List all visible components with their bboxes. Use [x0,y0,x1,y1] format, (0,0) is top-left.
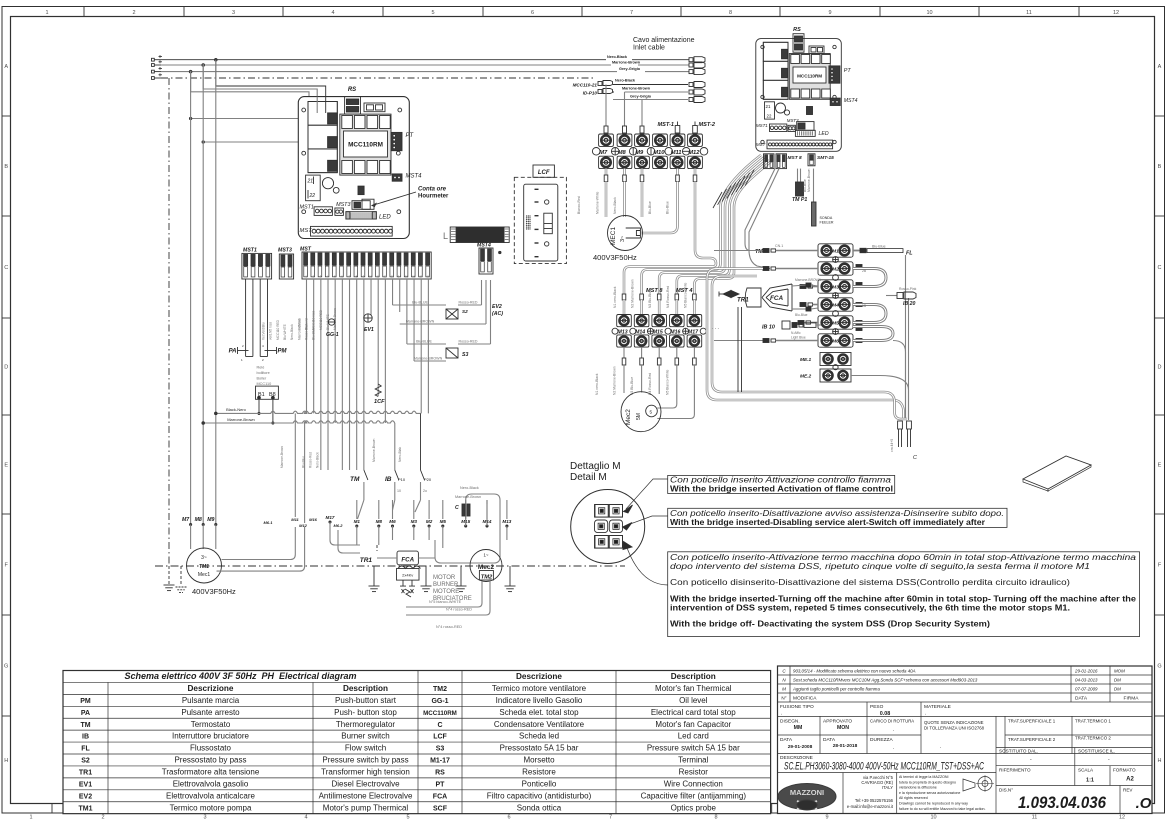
svg-text:Relè: Relè [257,366,265,370]
svg-text:TM2: TM2 [481,575,493,581]
svg-text:Blu-Blue: Blu-Blue [666,201,670,214]
svg-text:6: 6 [531,10,534,16]
svg-text:Grey-Grigio: Grey-Grigio [630,95,652,99]
svg-text:C: C [4,265,8,271]
svg-text:G: G [4,664,8,670]
svg-text:Diesel Electrovalve: Diesel Electrovalve [331,779,400,788]
svg-text:Pressostato 5A 15 bar: Pressostato 5A 15 bar [500,744,579,753]
svg-text:1: 1 [45,10,48,16]
svg-text:D: D [4,365,8,371]
svg-text:ITALY: ITALY [882,785,893,790]
svg-text:MST1: MST1 [300,205,314,211]
svg-text:E: E [4,463,8,469]
svg-text:M13: M13 [502,519,511,524]
svg-text:Mec2: Mec2 [478,564,495,571]
svg-text:Wire Connection: Wire Connection [664,779,723,788]
svg-text:Indicatore livello Gasolio: Indicatore livello Gasolio [496,696,583,705]
svg-text:Marrone-BROWN: Marrone-BROWN [406,320,435,324]
svg-text:MCC110RM: MCC110RM [348,142,383,149]
svg-text:2: 2 [101,815,104,820]
svg-text:M15: M15 [653,330,663,336]
svg-text:L: L [443,231,448,241]
svg-text:21: 21 [307,179,314,185]
svg-text:Nero-Black: Nero-Black [460,486,479,490]
svg-text:Dettaglio M: Dettaglio M [570,461,621,472]
svg-text:Nero-Black: Nero-Black [613,197,617,214]
svg-text:12: 12 [384,275,388,279]
svg-text:.O: .O [1136,795,1152,812]
svg-text:1CF: 1CF [374,399,385,405]
svg-text:SCF: SCF [433,805,448,812]
svg-text:N4 Rosso-Red: N4 Rosso-Red [648,373,652,395]
svg-text:MCC110-21: MCC110-21 [573,83,598,88]
svg-text:07-07-2009: 07-07-2009 [1075,687,1098,692]
svg-text:intervention of DSS system, re: intervention of DSS system, repeted 5 ti… [670,603,1070,612]
svg-text:22: 22 [767,114,772,119]
svg-text:Rosso-Red: Rosso-Red [309,452,313,468]
svg-text:S2: S2 [462,309,468,314]
svg-text:N5 Bianco-White: N5 Bianco-White [683,282,687,308]
svg-text:GG-1: GG-1 [431,698,448,705]
svg-text:Terminal: Terminal [678,756,708,765]
svg-text:TM1: TM1 [79,805,93,812]
svg-text:Cavo alimentazione: Cavo alimentazione [633,37,695,44]
svg-text:10: 10 [930,815,936,820]
svg-text:Detail M: Detail M [570,472,607,483]
svg-text:B: B [1158,164,1162,170]
svg-text:DI TOLLERANZA UNI ISO2768: DI TOLLERANZA UNI ISO2768 [924,726,985,731]
svg-text:APPROVATO: APPROVATO [823,719,852,725]
svg-text:Con poticello inserito Attivaz: Con poticello inserito Attivazione contr… [670,476,892,485]
svg-text:22: 22 [309,193,316,199]
svg-text:GG-1: GG-1 [326,332,339,338]
svg-text:PA: PA [81,710,90,717]
svg-text:failure to do so will entitle: failure to do so will entitle Mazzoni to… [899,807,986,811]
svg-text:M6: M6 [389,519,396,524]
svg-text:5M: 5M [636,413,642,420]
svg-text:1:1: 1:1 [1086,778,1094,784]
svg-text:M7: M7 [182,517,190,523]
svg-text:MCC110RM: MCC110RM [423,710,457,717]
svg-text:DATA: DATA [823,737,836,743]
svg-text:LED: LED [819,131,829,137]
svg-text:LED: LED [379,215,391,221]
svg-text:Grey-Grigio: Grey-Grigio [619,67,641,71]
svg-text:5: 5 [406,815,409,820]
svg-text:N1 nero-Black: N1 nero-Black [595,373,599,395]
svg-text:e-mail:info@e-mazzoni.it: e-mail:info@e-mazzoni.it [847,804,894,809]
svg-text:verd.N5 ross: verd.N5 ross [269,322,273,340]
svg-text:With the bridge inserted-Disab: With the bridge inserted-Disabling servi… [670,518,986,527]
svg-text:M16: M16 [309,517,318,522]
svg-text:Motor's fan Thermical: Motor's fan Thermical [655,684,732,693]
svg-text:Rosso-Pink: Rosso-Pink [899,287,917,291]
svg-text:N4 Rosso-Red: N4 Rosso-Red [666,286,670,308]
svg-text:6: 6 [507,815,510,820]
svg-text:9: 9 [828,10,831,16]
svg-text:.: . [893,727,894,733]
svg-text:.: . [893,745,894,751]
svg-text:1.093.04.036: 1.093.04.036 [1018,794,1107,812]
svg-text:Descrizione: Descrizione [188,684,234,693]
svg-text:8: 8 [714,815,717,820]
svg-text:IB 20: IB 20 [903,301,916,307]
svg-text:e la riproduzione senza autori: e la riproduzione senza autorizzazione [899,791,960,795]
svg-text:With the bridge inserted-Turni: With the bridge inserted-Turning off the… [670,595,1137,604]
svg-text:DM: DM [1114,687,1121,692]
svg-text:PM: PM [80,698,91,705]
svg-text:MOTOR: MOTOR [433,575,456,581]
svg-text:MAZZONI: MAZZONI [790,788,824,797]
svg-text:4: 4 [331,10,334,16]
svg-text:Antilimestone Electrovalve: Antilimestone Electrovalve [319,791,413,800]
svg-text:MODIFICA: MODIFICA [793,696,817,702]
svg-text:1~: 1~ [483,553,488,558]
svg-text:Inlet cable: Inlet cable [633,45,665,52]
svg-text:M1: M1 [354,519,361,524]
svg-text:11: 11 [1032,815,1038,820]
svg-text:MATERIALE: MATERIALE [924,704,951,710]
svg-text:29-01-2008: 29-01-2008 [788,744,813,750]
svg-text:Led card: Led card [678,732,709,741]
svg-text:M6: M6 [832,339,839,345]
svg-text:RS: RS [348,87,356,93]
svg-text:N°: N° [781,696,786,701]
svg-text:Marrone-Brown: Marrone-Brown [807,169,811,192]
svg-text:PM: PM [278,349,288,355]
svg-text:ME.1: ME.1 [800,357,812,363]
svg-text:FCA: FCA [433,793,447,800]
svg-text:9: 9 [825,815,828,820]
svg-text:C: C [1158,265,1162,271]
svg-text:Flow switch: Flow switch [345,744,386,753]
svg-text:Marrone-Brown: Marrone-Brown [612,60,641,64]
svg-text:TRAT.SUPERFICIALE 1: TRAT.SUPERFICIALE 1 [1008,719,1056,724]
svg-text:Push-button start: Push-button start [335,696,397,705]
svg-text:N.Affic: N.Affic [791,331,801,335]
svg-text:N2 Marrone-Brown: N2 Marrone-Brown [613,366,617,395]
svg-text:SOSTITUISCE IL.: SOSTITUISCE IL. [1078,749,1115,754]
svg-text:Filtro capacitivo (antidisturb: Filtro capacitivo (antidisturbo) [487,791,592,800]
svg-text:TM: TM [350,476,360,483]
svg-text:A: A [4,64,8,70]
svg-text:Marrone-Brown: Marrone-Brown [372,439,376,462]
svg-text:Pressostato by pass: Pressostato by pass [174,756,246,765]
svg-text:FCA: FCA [401,557,414,564]
svg-text:Termostato: Termostato [191,720,231,729]
svg-text:IB: IB [82,734,89,741]
svg-text:12: 12 [1113,10,1119,16]
svg-text:Con poticello inserito-Disatti: Con poticello inserito-Disattivazione av… [670,509,1004,518]
svg-text:ME.2: ME.2 [800,374,812,380]
svg-text:Sost.scheda MCC110RMvers MCC10: Sost.scheda MCC110RMvers MCC10M Agg.Sond… [793,678,978,683]
svg-text:Light Blue: Light Blue [791,336,806,340]
svg-text:FORMATO: FORMATO [1113,768,1136,773]
svg-text:TRAT.TERMICO 2: TRAT.TERMICO 2 [1075,736,1111,741]
svg-text:Ponticello: Ponticello [522,779,557,788]
svg-text:Pressure switch 5A 15 bar: Pressure switch 5A 15 bar [647,744,740,753]
svg-text:M2: M2 [426,519,433,524]
svg-text:DATA: DATA [1075,696,1088,702]
svg-text:MST4: MST4 [406,174,423,180]
svg-text:RIFERIMENTO: RIFERIMENTO [999,768,1031,773]
svg-text:.: . [925,711,926,717]
svg-text:Pulsante arresto: Pulsante arresto [181,708,240,717]
svg-text:04-03-2013: 04-03-2013 [1075,678,1098,683]
svg-text:FUSIONE TIPO: FUSIONE TIPO [780,704,814,710]
svg-text:PT: PT [436,781,446,788]
svg-text:Electrical card total stop: Electrical card total stop [651,708,736,717]
svg-text:vietandone la diffusione: vietandone la diffusione [899,786,937,790]
svg-text:28-01-2018: 28-01-2018 [833,743,858,749]
svg-text:Motor's pump Thermical: Motor's pump Thermical [323,803,409,812]
svg-text:PESO: PESO [870,704,884,710]
svg-text:Aggiunti taglio ponticelli per: Aggiunti taglio ponticelli per controllo… [792,687,880,692]
svg-text:Rosso-RED: Rosso-RED [459,340,478,344]
svg-text:Drawings cannot be reproduced: Drawings cannot be reproduced in any way [899,802,968,806]
svg-text:Marrone-White: Marrone-White [596,191,600,214]
svg-text:Blu-Blue: Blu-Blue [312,328,316,340]
svg-text:10: 10 [369,275,373,279]
svg-text:Blu-Blue: Blu-Blue [795,313,808,317]
svg-text:N2 Marrone-Brown: N2 Marrone-Brown [631,279,635,308]
svg-text:Rosso-RED: Rosso-RED [459,301,478,305]
svg-text:SCALA: SCALA [1078,768,1094,773]
svg-text:MCC110 RED: MCC110 RED [319,309,323,330]
svg-text:M8: M8 [376,519,383,524]
svg-text:FCA: FCA [770,295,784,302]
svg-text:Mec1: Mec1 [198,572,210,578]
svg-text:M5: M5 [832,321,839,327]
svg-text:DM: DM [1114,678,1121,683]
svg-text:Marrone-BROWN: Marrone-BROWN [414,357,443,361]
svg-text:16: 16 [412,275,416,279]
svg-text:Blu WHITE: Blu WHITE [283,324,287,340]
svg-text:TM: TM [755,249,763,255]
svg-text:Nero-Black: Nero-Black [607,55,628,59]
svg-text:MM: MM [794,725,803,731]
svg-text:B: B [4,164,8,170]
svg-text:Motor's fan Capacitor: Motor's fan Capacitor [655,720,731,729]
svg-text:CN.1: CN.1 [775,244,783,248]
svg-text:1B: 1B [862,304,867,308]
svg-text:FL: FL [906,251,913,257]
svg-text:N°5 bianco-WHITE: N°5 bianco-WHITE [429,600,462,604]
svg-text:EV1: EV1 [79,781,92,788]
svg-text:S3: S3 [462,352,468,358]
svg-text:G: G [1157,664,1161,670]
svg-text:M1-17: M1-17 [430,758,450,765]
svg-text:MOM: MOM [1114,669,1125,674]
svg-text:A2: A2 [1126,777,1134,783]
svg-text:Blu-Blue: Blu-Blue [872,245,886,249]
svg-text:DATA: DATA [780,737,793,743]
svg-text:MST-1: MST-1 [658,122,674,128]
svg-text:Interruttore bruciatore: Interruttore bruciatore [172,732,249,741]
svg-text:SMT-15: SMT-15 [817,155,834,161]
svg-text:M6.1: M6.1 [264,520,274,525]
svg-text:TR1: TR1 [360,557,373,564]
svg-text:Elettrovalvola anticalcare: Elettrovalvola anticalcare [166,791,255,800]
svg-text:PT: PT [406,133,415,139]
svg-text:M: M [782,687,786,692]
svg-text:H: H [1158,758,1162,764]
svg-text:TM: TM [80,722,90,729]
svg-text:SOSTITUITO DAL.: SOSTITUITO DAL. [999,749,1038,754]
svg-text:18: 18 [427,275,431,279]
svg-text:N5 Bianco-White: N5 Bianco-White [665,369,669,395]
svg-text:tutela la proprietà di questo: tutela la proprietà di questo disegno [899,780,956,784]
svg-text:Termico motore ventilatore: Termico motore ventilatore [492,684,587,693]
svg-text:. . .: . . . [712,325,719,331]
svg-text:Description: Description [671,672,716,681]
svg-text:EV2: EV2 [492,304,502,310]
svg-text:N3 Blu-Blue: N3 Blu-Blue [630,377,634,395]
svg-text:M12: M12 [299,523,308,528]
svg-text:M11: M11 [291,517,299,522]
svg-text:cm 44+5: cm 44+5 [890,439,894,452]
svg-text:RS: RS [793,27,801,33]
svg-text:13: 13 [391,275,395,279]
svg-text:M8: M8 [195,517,202,523]
svg-text:Rosso-Red: Rosso-Red [305,324,309,340]
svg-text:Marrone-Brown: Marrone-Brown [297,318,301,340]
svg-text:Con poticello disinserito-Disa: Con poticello disinserito-Disattivazione… [670,578,1071,587]
svg-text:IB: IB [385,476,392,483]
svg-text:PA: PA [229,349,237,355]
svg-text:E: E [1158,463,1162,469]
svg-text:SC.EL.PH3060-3080-4000 400V-50: SC.EL.PH3060-3080-4000 400V-50Hz MCC110R… [784,761,984,773]
svg-text:EV2: EV2 [79,793,92,800]
svg-text:Ai termini di legge la MAZZONI: Ai termini di legge la MAZZONI [899,775,949,779]
svg-text:Description: Description [343,684,388,693]
svg-text:M7: M7 [599,150,608,156]
svg-text:P10: P10 [398,477,406,482]
svg-text:Resistor: Resistor [679,767,709,776]
svg-text:11: 11 [376,275,379,279]
svg-text:IB 10: IB 10 [762,325,775,331]
svg-text:M16: M16 [670,330,680,336]
svg-text:Trasformatore alta tensione: Trasformatore alta tensione [162,767,260,776]
svg-text:MCC110RM: MCC110RM [797,74,822,79]
svg-text:C: C [913,455,917,461]
svg-text:N1 nero-Black: N1 nero-Black [613,286,617,308]
svg-text:MST3: MST3 [787,118,799,123]
svg-text:21: 21 [766,104,771,109]
svg-text:2: 2 [132,10,135,16]
svg-text:DIS.N°: DIS.N° [999,788,1013,793]
svg-text:Transformer high tension: Transformer high tension [321,767,410,776]
svg-text:29-01-2016: 29-01-2016 [1074,669,1098,674]
svg-text:11: 11 [1026,10,1032,16]
svg-text:Conta ore: Conta ore [418,187,447,193]
svg-text:P20: P20 [424,477,432,482]
svg-text:Marrone-Brown: Marrone-Brown [280,446,284,468]
svg-text:MON: MON [837,725,849,731]
svg-text:REV: REV [1123,788,1133,793]
svg-text:Pulsante marcia: Pulsante marcia [182,696,240,705]
svg-text:D: D [1158,365,1162,371]
svg-text:M3: M3 [832,285,839,291]
svg-text:Resistore: Resistore [522,767,556,776]
svg-text:H: H [4,758,8,764]
svg-text:MCC110 RED: MCC110 RED [276,319,280,340]
svg-text:2B: 2B [862,269,867,273]
svg-text:M17: M17 [326,515,335,520]
svg-text:Bianco-Red: Bianco-Red [577,196,581,214]
svg-text:7: 7 [630,10,633,16]
svg-text:Marrone-Brown: Marrone-Brown [622,87,651,91]
svg-text:Boiler: Boiler [257,377,267,381]
svg-text:7: 7 [609,815,612,820]
svg-text:Capacitive filter (antijamming: Capacitive filter (antijamming) [641,791,747,800]
svg-text:SONDA: SONDA [820,216,833,220]
svg-text:Thermoregulator: Thermoregulator [336,720,395,729]
svg-text:Pressure switch by pass: Pressure switch by pass [322,756,408,765]
svg-text:Blu-BLUE: Blu-BLUE [412,301,428,305]
svg-text:15: 15 [405,275,409,279]
svg-text:TRAT.SUPERFICIALE 2: TRAT.SUPERFICIALE 2 [1008,737,1056,742]
svg-text:MEC1: MEC1 [610,227,617,245]
svg-text:Scheda elet. total stop: Scheda elet. total stop [499,708,579,717]
svg-text:CARICO DI ROTTURA: CARICO DI ROTTURA [870,719,914,724]
svg-text:Blu-BLUE: Blu-BLUE [416,340,432,344]
svg-text:MCC110: MCC110 [257,382,272,386]
svg-text:Schema elettrico 400V 3F 50Hz: Schema elettrico 400V 3F 50Hz PH Electri… [124,671,356,681]
svg-text:bollitore: bollitore [257,371,270,375]
svg-text:.: . [781,711,782,717]
svg-text:All rights reserved: All rights reserved [899,796,928,800]
svg-text:Blu-Blue: Blu-Blue [648,201,652,214]
svg-text:PT: PT [844,68,852,74]
svg-text:Marrone-Brown: Marrone-Brown [455,495,481,499]
svg-text:MST: MST [756,142,766,147]
svg-text:Push- button stop: Push- button stop [334,708,397,717]
svg-text:Flussostato: Flussostato [190,744,231,753]
svg-text:N°4 rosso-RED: N°4 rosso-RED [436,625,462,629]
svg-text:8: 8 [729,10,732,16]
svg-text:Tel:+39 0522576156: Tel:+39 0522576156 [855,798,894,803]
svg-text:ID-P10: ID-P10 [583,91,598,96]
svg-text:C: C [437,722,442,729]
svg-text:0.08: 0.08 [880,711,891,717]
svg-text:2o: 2o [423,489,427,493]
svg-text:DISEGN.: DISEGN. [780,719,800,725]
svg-text:QUOTE SENZA INDICAZIONE: QUOTE SENZA INDICAZIONE [924,720,984,725]
svg-text:Optics probe: Optics probe [671,803,717,812]
svg-text:A: A [1158,64,1162,70]
svg-text:M4: M4 [832,303,839,309]
svg-text:M14: M14 [635,330,645,336]
svg-text:Sonda ottica: Sonda ottica [517,803,562,812]
svg-text:TM2: TM2 [433,686,447,693]
svg-text:S2: S2 [81,758,90,765]
svg-text:903,05/14 - Modificato schema: 903,05/14 - Modificato schema elettrico … [793,669,916,674]
svg-text:Scheda led: Scheda led [519,732,559,741]
svg-text:10: 10 [397,489,401,493]
svg-text:3: 3 [232,10,235,16]
svg-text:Nero-Black: Nero-Black [615,79,636,83]
svg-text:M5: M5 [440,519,447,524]
svg-text:FL: FL [81,746,90,753]
svg-text:TR1: TR1 [79,769,92,776]
svg-text:M2: M2 [832,267,839,273]
svg-text:Nero-Blak: Nero-Blak [398,447,402,462]
svg-text:C: C [455,505,459,511]
svg-text:TM P1: TM P1 [792,197,807,203]
svg-text:BURNER: BURNER [433,582,459,588]
svg-text:M9: M9 [207,517,214,523]
